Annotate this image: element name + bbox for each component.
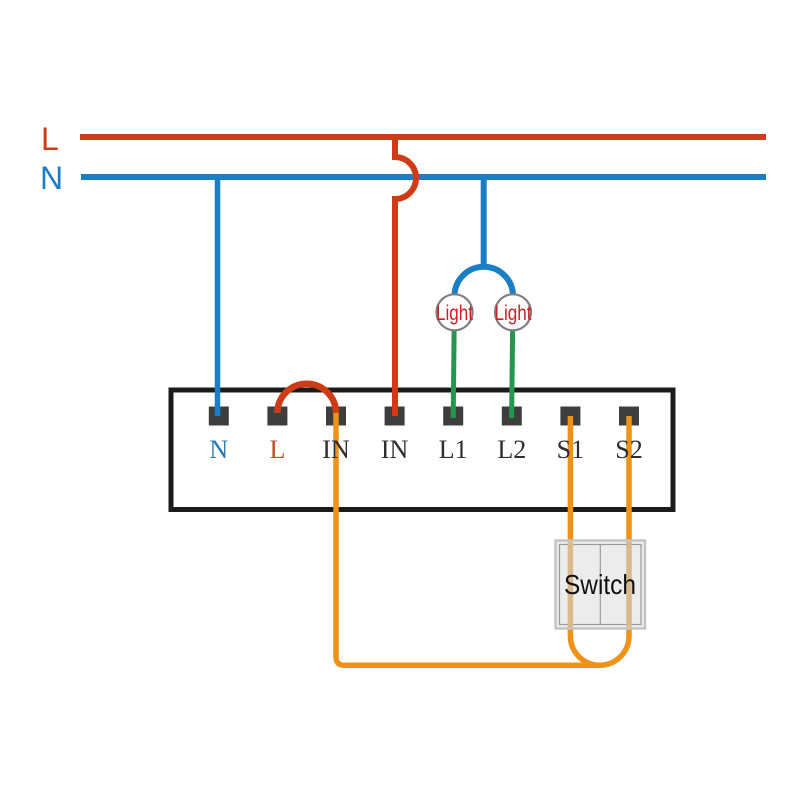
lamp Light 2 — [495, 294, 532, 330]
wire: L drop to terminal IN with hop over N line — [395, 137, 416, 416]
svg-text:IN: IN — [381, 435, 409, 464]
terminal S2 — [619, 407, 639, 426]
wire: N supply line — [81, 174, 766, 180]
svg-text:L: L — [41, 121, 59, 157]
terminal IN (left) — [326, 407, 346, 426]
wire: N branch down to lights — [481, 177, 487, 267]
svg-text:S2: S2 — [615, 435, 642, 464]
wire: L supply line — [80, 134, 766, 140]
svg-text:IN: IN — [322, 435, 350, 464]
svg-text:N: N — [40, 160, 63, 196]
svg-text:S1: S1 — [557, 435, 584, 464]
wire: orange IN loop down and around to switch U — [336, 408, 599, 665]
terminal L1 — [443, 407, 463, 426]
terminal S1 — [560, 407, 580, 426]
wire: N drop to terminal N — [215, 177, 221, 416]
terminal N — [209, 407, 229, 426]
svg-text:L1: L1 — [439, 435, 468, 464]
terminal L2 — [502, 407, 522, 426]
svg-text:N: N — [209, 435, 228, 464]
switch box (overlays wires) — [556, 541, 646, 629]
relay module box — [171, 390, 673, 510]
svg-text:Light: Light — [436, 301, 473, 325]
wire: green light1 to L1 — [453, 322, 454, 418]
terminal IN (right) — [385, 407, 405, 426]
wire: vermillion jumper arc L to IN — [277, 384, 336, 413]
wire: green light2 to L2 — [512, 322, 513, 418]
wire: muted S2 wire inside switch — [626, 542, 632, 628]
svg-text:Switch: Switch — [564, 569, 636, 600]
svg-text:Light: Light — [495, 301, 532, 325]
lamp Light 1 — [436, 294, 473, 330]
svg-text:L: L — [269, 435, 285, 464]
wire: blue arch to both lights — [455, 267, 514, 296]
svg-text:L2: L2 — [497, 435, 526, 464]
wire: S1 down, U-turn, up to S2 — [570, 416, 629, 665]
terminal L — [267, 407, 287, 426]
wire: muted S1 wire inside switch — [568, 542, 574, 628]
